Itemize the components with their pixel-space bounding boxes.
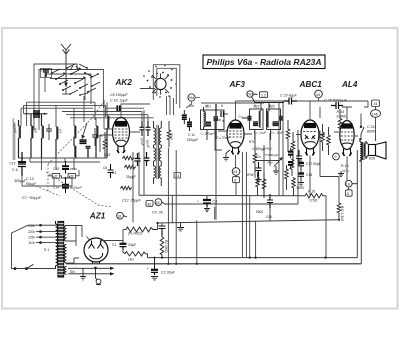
svg-text:IF/v: IF/v: [268, 161, 273, 165]
wire AL4 leads: [334, 112, 358, 136]
svg-text:S21: S21: [205, 105, 211, 109]
svg-text:25μμF: 25μμF: [126, 175, 136, 179]
svg-text:R 15: R 15: [341, 164, 349, 168]
volume pot arrow: [274, 157, 283, 167]
svg-text:C45: C45: [266, 215, 272, 219]
svg-text:C 25 5000μμF: C 25 5000μμF: [324, 99, 348, 103]
svg-text:125v: 125v: [28, 236, 35, 240]
resistor R5osc: [167, 121, 171, 148]
wire speaker leads: [366, 141, 369, 159]
electrolytic C1: [120, 241, 127, 250]
trimmer box 37: [52, 174, 60, 179]
svg-text:C2 30μF: C2 30μF: [161, 271, 176, 275]
svg-text:220v: 220v: [28, 230, 35, 234]
capacitor C19b: [267, 194, 273, 208]
mains tap 220v: [36, 231, 57, 233]
svg-text:C4 .05: C4 .05: [152, 211, 163, 215]
ground AF3 cathode: [223, 150, 230, 161]
svg-text:8: 8: [234, 179, 236, 183]
wave switch S1 cluster: [51, 64, 100, 96]
capacitor C9: [135, 153, 141, 166]
svg-text:C1: C1: [112, 243, 117, 247]
svg-text:+: +: [147, 267, 149, 271]
tuning coil S5: [56, 127, 58, 158]
mains tap 245v: [36, 224, 57, 226]
svg-text:1:1: 1:1: [175, 174, 180, 178]
padder capacitor C17: [46, 124, 52, 140]
socket top view U1b: [140, 65, 177, 98]
svg-text:18: 18: [156, 201, 160, 205]
capacitor C25: [331, 102, 343, 109]
mains tap 110v: [36, 242, 57, 244]
oscillator coil S17 winding c: [159, 166, 161, 186]
wire AF3 cathode down: [235, 155, 238, 196]
left margin vertical C19: [13, 118, 15, 160]
tube U2 AF3: [227, 120, 244, 155]
bus B chassis: [66, 263, 361, 265]
ground under pot: [256, 176, 262, 183]
svg-text:AZ1: AZ1: [89, 211, 106, 220]
arrow output 1: [68, 267, 115, 270]
svg-text:+: +: [197, 200, 199, 204]
trimmer arrow S6: [82, 123, 88, 139]
title box: [203, 55, 325, 69]
resistor R10: [291, 132, 295, 160]
capacitor C10: [106, 106, 144, 118]
svg-text:50kΩ: 50kΩ: [170, 133, 174, 141]
svg-text:24: 24: [233, 170, 237, 174]
wire C23 to 44 to grid: [297, 98, 319, 118]
ground C2: [151, 277, 158, 280]
svg-text:C16: C16: [306, 173, 312, 177]
svg-text:(PL/40Ω): (PL/40Ω): [128, 232, 142, 236]
electrolytic C16: [299, 170, 305, 180]
resistor R17: [337, 202, 341, 220]
capacitor C6: [18, 152, 26, 176]
svg-text:C5: C5: [103, 166, 107, 170]
antenna coupling capacitor C4a: [24, 111, 48, 117]
resistor R3: [123, 250, 148, 258]
output transformer S26: [360, 138, 366, 162]
coupling capacitor C23: [284, 98, 297, 105]
wire switch to coils: [21, 96, 154, 127]
capacitor C11: [144, 152, 150, 166]
resistor R6: [253, 145, 257, 172]
electrolytic C17: [299, 159, 305, 170]
block capacitor Cd2: [86, 146, 91, 158]
padding capacitor Cb: [146, 121, 151, 136]
capacitor block Cblk2: [187, 118, 192, 131]
svg-text:C 13: C 13: [26, 177, 34, 181]
capacitor C4: [159, 226, 166, 236]
circled terminal 18b: [345, 180, 357, 187]
tuning coil S7: [96, 126, 98, 158]
resistor R14z: [338, 109, 342, 140]
resistor R1: [122, 156, 134, 160]
transformer T1 primary: [56, 221, 58, 269]
wire AL4 top area: [310, 101, 376, 177]
svg-text:C 10. 2μμF: C 10. 2μμF: [110, 99, 129, 103]
resistor R19: [262, 172, 266, 198]
svg-text:8000: 8000: [367, 130, 375, 134]
circled terminal 29d2: [247, 91, 284, 103]
switch S mains: [14, 264, 56, 269]
boxed terminal 42: [146, 201, 153, 207]
circled terminal 24: [232, 168, 240, 176]
tuning coil S3: [31, 114, 33, 158]
wire HT to AZ1 plates: [67, 226, 91, 264]
svg-text:29d: 29d: [188, 96, 194, 100]
boxed terminal 5: [346, 187, 353, 196]
svg-text:5: 5: [347, 192, 349, 196]
wire top-left outer loop: [34, 64, 103, 130]
trimmer box 39: [68, 174, 76, 179]
boxed terminal 41: [372, 100, 380, 107]
svg-text:12 k: 12 k: [342, 169, 349, 173]
block capacitor Cd1: [80, 140, 87, 143]
wire AK2 grid leads: [100, 100, 150, 152]
junction dots: [156, 219, 340, 265]
svg-text:R2 150Ω: R2 150Ω: [164, 240, 168, 253]
svg-text:6.8MΩ: 6.8MΩ: [337, 115, 348, 119]
svg-text:R7x: R7x: [255, 155, 261, 159]
svg-text:44: 44: [316, 93, 320, 97]
svg-text:1=600μμF: 1=600μμF: [252, 147, 267, 151]
oscillator coil S17 winding b: [159, 148, 161, 166]
speaker LS: [369, 142, 387, 159]
wire socket nested rects: [153, 65, 180, 115]
bus Y3: [157, 220, 339, 223]
svg-text:37: 37: [54, 174, 58, 178]
wire AZ1 to C1: [101, 230, 126, 244]
capacitor C14: [62, 178, 69, 193]
resistor R2a: [124, 165, 136, 169]
svg-text:S 1: S 1: [44, 248, 49, 252]
svg-text:150μμF: 150μμF: [187, 138, 199, 142]
ground bus Y3: [177, 223, 184, 231]
wire rails 2: [246, 103, 279, 258]
circled terminal 44: [315, 90, 323, 98]
svg-text:170Ω: 170Ω: [309, 199, 318, 203]
bus Y2: [166, 203, 298, 205]
ground mid: [273, 166, 279, 174]
electrolytic Cx1: [288, 148, 293, 158]
AVC line: [255, 161, 280, 167]
capacitor C20: [256, 162, 262, 176]
mains tap 125v: [36, 236, 57, 238]
padder capacitor C18: [92, 128, 98, 146]
resistor R5: [256, 172, 260, 196]
svg-text:29d: 29d: [247, 93, 253, 97]
ground C3: [204, 209, 210, 212]
svg-text:5000: 5000: [297, 186, 305, 190]
ground tone cap: [338, 171, 344, 177]
svg-text:9: 9: [335, 155, 337, 159]
tuning coil S6a: [74, 126, 76, 146]
capacitor C22: [296, 150, 302, 165]
svg-text:S26: S26: [369, 157, 375, 161]
svg-text:T=600μμF: T=600μμF: [265, 153, 279, 157]
ground C16: [298, 180, 304, 186]
long vertical rails: [133, 101, 310, 264]
resistor R2: [160, 236, 164, 258]
resistor R16: [303, 194, 326, 199]
earth terminal: [95, 267, 101, 284]
svg-text:110v: 110v: [28, 241, 35, 245]
circled terminal 146: [371, 110, 381, 118]
wire trimmer row: [48, 170, 79, 179]
wire IF top links: [201, 101, 284, 107]
antenna A1: [61, 44, 71, 88]
oscillator coil S16 winding c: [154, 166, 156, 184]
resistor left of AK2: [103, 132, 107, 158]
svg-text:5000: 5000: [256, 210, 263, 214]
capacitor C15: [62, 161, 69, 174]
transformer T1 secondary HT: [64, 226, 66, 275]
resistor under AK2: [120, 186, 132, 190]
svg-text:AF3: AF3: [229, 80, 246, 89]
IF transformer S25 box: [267, 103, 284, 140]
capacitor C16 (L14 box): [41, 69, 52, 78]
svg-text:C 6: C 6: [12, 168, 18, 172]
svg-text:1.2: 1.2: [261, 93, 266, 97]
resistor R7: [285, 165, 289, 190]
svg-text:3F/W: 3F/W: [246, 173, 254, 177]
svg-text:C19: C19: [10, 162, 16, 166]
svg-text:L14: L14: [41, 69, 47, 73]
oscillator coil S16 winding a: [154, 121, 156, 148]
electrolytic C3: [203, 197, 211, 208]
svg-text:146: 146: [372, 112, 378, 116]
grid cap C-AF3: [221, 111, 224, 117]
coil bottom bus: [19, 158, 108, 170]
svg-text:C₁₄ 50μμF: C₁₄ 50μμF: [217, 136, 231, 140]
svg-text:42: 42: [147, 202, 151, 206]
IF transformer S22 box: [242, 103, 263, 140]
resistor R12: [321, 124, 325, 151]
oscillator core: [157, 125, 159, 179]
svg-text:33μF: 33μF: [128, 243, 137, 247]
dashed gang line: [36, 100, 112, 207]
svg-text:C17 50μF: C17 50μF: [306, 162, 321, 166]
svg-text:C12 .05μμF: C12 .05μμF: [122, 199, 142, 203]
svg-text:18: 18: [346, 182, 350, 186]
tuning coil S6b: [74, 146, 76, 158]
svg-text:S22: S22: [254, 105, 260, 109]
circled terminal 9: [333, 153, 340, 160]
oscillator coil S17 winding a: [159, 121, 161, 148]
circled terminal 18a: [155, 199, 166, 206]
svg-text:245v: 245v: [28, 224, 35, 228]
tube U5 AZ1: [84, 238, 108, 264]
boxed terminal 1.2: [260, 92, 268, 98]
tuning coil S2: [19, 120, 21, 158]
tuning coil S4: [42, 114, 44, 158]
svg-text:C₆ 505μμF: C₆ 505μμF: [201, 132, 216, 136]
svg-text:C₂₂ 1μμF: C₂₂ 1μμF: [254, 131, 266, 135]
switch S-tone: [360, 120, 364, 140]
svg-text:55μμF: 55μμF: [26, 182, 37, 186]
svg-text:C7 ~50μμF: C7 ~50μμF: [22, 196, 42, 200]
wire mains selector: [12, 225, 37, 268]
dashed gang vertical: [47, 164, 49, 192]
wire right boundary: [357, 150, 361, 264]
svg-text:C₂₅ 1μμF: C₂₅ 1μμF: [271, 131, 283, 135]
svg-text:41: 41: [374, 102, 378, 106]
svg-text:AK2: AK2: [115, 78, 133, 87]
wire AF3 grid leads: [215, 101, 252, 134]
svg-text:2500: 2500: [70, 167, 77, 171]
arrow output 2: [68, 272, 115, 275]
resistor R8: [292, 177, 296, 196]
oscillator coil S16 winding b: [154, 148, 156, 166]
svg-text:C8 150μμF: C8 150μμF: [110, 93, 129, 97]
svg-text:18: 18: [117, 214, 121, 218]
svg-text:AL4: AL4: [341, 80, 358, 89]
boxed terminal 8: [233, 177, 240, 183]
circled terminal 29d: [188, 94, 195, 101]
IF transformer S21 box: [201, 104, 225, 140]
svg-text:5/h: 5/h: [189, 104, 194, 108]
wire C6 to trimmers: [22, 176, 72, 186]
svg-text:R 16: R 16: [308, 190, 315, 194]
tube U3 ABC1: [301, 120, 319, 156]
svg-text:C 24: C 24: [367, 125, 375, 129]
ground AZ1 area: [80, 268, 86, 280]
boxed 1:1: [174, 173, 181, 179]
svg-text:Philips V6a - Radiola RA23A: Philips V6a - Radiola RA23A: [206, 57, 321, 67]
wire R16 to R17: [326, 177, 339, 258]
tuning coil S8: [107, 116, 109, 158]
padding capacitor Ca: [140, 121, 145, 136]
svg-text:R17 1.3kΩ: R17 1.3kΩ: [340, 206, 344, 222]
bus A HT: [148, 257, 358, 259]
capacitor block Cblk1: [182, 110, 187, 124]
capacitor C5: [108, 164, 114, 178]
svg-text:1kΩ: 1kΩ: [128, 258, 134, 262]
transformer T1 core: [58, 222, 64, 278]
svg-text:ABC1: ABC1: [299, 80, 323, 89]
svg-text:C 23 4μμF: C 23 4μμF: [280, 94, 298, 98]
wire 29d lead: [186, 98, 200, 109]
wire AF3 shield box: [215, 120, 223, 150]
tube U1 AK2: [113, 118, 130, 154]
resistor R11: [290, 159, 294, 177]
svg-text:C 11: C 11: [188, 133, 195, 137]
resistor R9: [286, 120, 290, 152]
bus Y1 screen: [139, 194, 303, 197]
resistor R4 filter: [126, 227, 158, 232]
svg-text:C3: C3: [213, 200, 218, 204]
wire ABC1 leads: [296, 118, 325, 135]
resistor R13: [327, 127, 331, 155]
svg-text:S25: S25: [269, 105, 275, 109]
svg-text:C15: C15: [53, 167, 59, 171]
electrolytic Cx2: [288, 162, 293, 168]
svg-text:AVC: AVC: [267, 147, 274, 151]
tube U4 AL4: [340, 121, 354, 157]
circled terminal 18c: [117, 212, 127, 219]
capacitor C2: [151, 257, 158, 275]
wire AL4 cathode down: [346, 157, 348, 181]
